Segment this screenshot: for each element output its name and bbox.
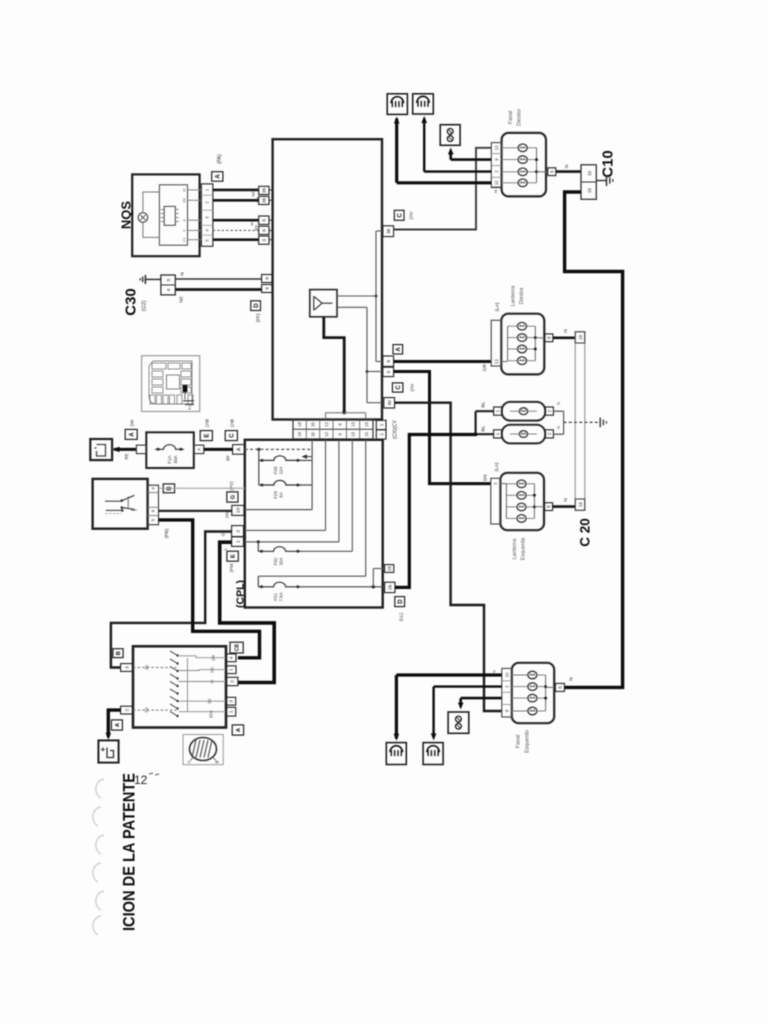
internal net to pins 5 and 40	[337, 306, 367, 308]
wire row3 to low beam icon	[424, 170, 491, 172]
svg-text:9: 9	[265, 287, 270, 290]
stalk switch contacts	[105, 500, 121, 502]
pin 5	[259, 216, 269, 224]
svg-text:Diestro: Diestro	[517, 109, 523, 126]
left headlamp Fanal Esquerdo box	[512, 663, 554, 723]
right tail lamp Lanterna Diestra box	[501, 314, 544, 375]
Lanterna Esquerda pin strip	[491, 478, 501, 524]
wire GR	[394, 360, 492, 363]
svg-text:(FF): (FF)	[256, 313, 262, 322]
battery supply icon	[90, 439, 112, 460]
svg-text:B: B	[215, 760, 220, 763]
wire CPL2 to switch pin3	[111, 532, 232, 668]
pin 25	[385, 565, 394, 573]
pin 10 of CPL	[232, 505, 244, 515]
svg-text:N: N	[556, 402, 561, 405]
svg-text:E04: E04	[209, 710, 214, 718]
svg-text:10: 10	[494, 180, 499, 185]
svg-text:A: A	[129, 432, 135, 437]
right headlamp Fanal Diestro box	[502, 133, 546, 197]
wire switch pin2 to battery icon	[108, 710, 120, 737]
pin 9 b	[262, 285, 272, 293]
svg-text:D: D	[398, 599, 404, 604]
svg-text:N: N	[556, 426, 561, 429]
svg-text:CB: CB	[234, 644, 240, 652]
left tail lamp Lanterna Esquerda box	[500, 473, 544, 530]
svg-text:40: 40	[387, 400, 392, 406]
switch pin 3 left	[121, 664, 133, 672]
svg-text:C: C	[230, 433, 236, 438]
Lanterna Diestra bulbs	[517, 322, 526, 330]
dashed ground line	[564, 421, 600, 423]
svg-text:36: 36	[262, 197, 267, 203]
svg-text:18: 18	[297, 431, 302, 436]
svg-text:12A: 12A	[279, 467, 284, 475]
pin 3	[259, 236, 269, 244]
CPL pin2 internal	[245, 529, 326, 531]
high beam telltale icon left	[386, 743, 406, 765]
svg-text:13: 13	[351, 431, 356, 436]
NQS bulb	[138, 213, 148, 223]
wire to position icon	[449, 151, 452, 160]
svg-text:BL: BL	[481, 425, 487, 431]
Fanal Esquerdo bulbs	[528, 671, 537, 679]
wire pin26 to side markers	[395, 435, 476, 588]
svg-text:9: 9	[182, 229, 186, 231]
svg-text:16: 16	[587, 170, 592, 175]
low beam telltale icon right	[413, 94, 434, 114]
svg-text:18: 18	[297, 421, 302, 426]
svg-text:NZ: NZ	[179, 296, 185, 302]
svg-text:F1: F1	[188, 405, 192, 409]
svg-text:F32: F32	[273, 557, 278, 565]
binder arc marks	[96, 779, 104, 798]
pin 6 right	[383, 356, 394, 366]
wire pin36 to right headlamp	[394, 148, 492, 230]
wire stalk pin4 thin	[159, 487, 245, 489]
fuse F32 output	[301, 550, 352, 552]
fuse F31 feed	[365, 440, 367, 576]
switch pin 4 right	[226, 654, 236, 662]
svg-text:(PM: (PM	[229, 564, 234, 573]
fuse box CPL	[245, 440, 383, 608]
svg-text:ICION DE LA PATENTE: ICION DE LA PATENTE	[120, 773, 139, 931]
CPL pin1 internal	[245, 541, 339, 543]
wire BF to CPL A	[204, 448, 233, 451]
internal light switch symbol	[310, 290, 337, 317]
pin 2 of CPL	[232, 526, 244, 537]
svg-text:F31: F31	[273, 593, 278, 601]
svg-text:Diestra: Diestra	[519, 288, 525, 305]
wire N to C20-19 lower	[553, 505, 576, 508]
svg-text:E: E	[231, 554, 237, 558]
pin 2 marker right	[545, 407, 553, 415]
svg-text:13: 13	[351, 421, 356, 426]
ground at C30	[145, 278, 161, 280]
wire N to C10	[556, 170, 581, 173]
svg-text:(G2): (G2)	[142, 300, 148, 311]
switch pin 2 right	[226, 677, 238, 685]
Fanal Esquerdo pin strip	[502, 668, 512, 717]
svg-text:RE: RE	[124, 453, 129, 459]
svg-text:15: 15	[364, 431, 369, 436]
svg-text:2: 2	[235, 529, 241, 532]
svg-text:(AV: (AV	[410, 383, 416, 391]
pin 26	[385, 582, 395, 592]
pin 6	[259, 226, 269, 234]
svg-text:10: 10	[236, 507, 242, 513]
wire dashed to pin 6	[213, 229, 259, 231]
headlight switch internals	[176, 654, 178, 656]
low beam telltale icon left	[423, 743, 443, 765]
connector C10	[581, 165, 596, 200]
svg-text:15: 15	[587, 188, 592, 193]
pin 1 of CPL	[232, 537, 244, 547]
pin A of CPL	[233, 445, 245, 455]
side marker lamp left	[502, 425, 545, 444]
svg-text:36: 36	[262, 187, 267, 193]
pin 36 b	[259, 196, 269, 204]
stalk pin strip	[148, 485, 159, 525]
svg-text:30A: 30A	[173, 454, 178, 463]
wire to low beam icon	[423, 118, 425, 172]
svg-text:36: 36	[386, 228, 391, 234]
svg-text:BF: BF	[226, 455, 231, 461]
Fanal Diestro pin 5	[548, 168, 556, 176]
ground at C10	[596, 180, 606, 182]
connector label C (AV) upper	[394, 210, 404, 220]
switch knob pictorial	[183, 735, 223, 765]
lighting stalk switch box	[93, 479, 148, 529]
connector C20 strip	[575, 332, 585, 511]
Lanterna Esquerda pin 5	[545, 503, 553, 511]
svg-text:F29: F29	[273, 491, 278, 499]
svg-text:19: 19	[578, 334, 583, 339]
internal net to pins 36 and 6	[337, 295, 376, 297]
pin 36 a	[259, 186, 269, 194]
wire RV to pin 5	[213, 219, 259, 222]
NQS connector strip	[201, 184, 213, 246]
svg-text:G: G	[221, 532, 226, 536]
svg-text:(PV): (PV)	[229, 481, 234, 491]
svg-text:m: m	[210, 679, 215, 683]
svg-text:C 20: C 20	[578, 518, 593, 547]
svg-text:Esquerdo: Esquerdo	[525, 730, 531, 753]
wire RE with arrow	[114, 448, 136, 451]
marker ground wires	[553, 410, 563, 412]
svg-text:2M: 2M	[182, 198, 186, 203]
connector label C (AV) lower	[392, 383, 403, 392]
svg-text:da: da	[144, 665, 149, 670]
svg-text:Fanal: Fanal	[516, 735, 522, 749]
svg-text:5: 5	[262, 218, 267, 221]
svg-text:12: 12	[324, 421, 329, 426]
pin 5 right	[383, 367, 394, 376]
pin stub right A	[194, 445, 204, 454]
side marker lamp right	[502, 402, 545, 421]
connector label B	[163, 484, 174, 493]
Lanterna Esquerda internal buses	[505, 484, 507, 519]
svg-text:10: 10	[504, 672, 509, 677]
fuse F31 output to pins 25 26	[301, 586, 385, 588]
svg-text:C10: C10	[600, 150, 617, 178]
pin stub left	[136, 445, 146, 454]
svg-text:5A: 5A	[279, 492, 284, 497]
svg-text:C: C	[396, 385, 402, 390]
main body computer box	[273, 139, 382, 419]
svg-text:A: A	[396, 346, 402, 351]
connector label D (FF)	[251, 301, 261, 311]
riser to fuse F28	[258, 449, 260, 460]
svg-text:30: 30	[311, 431, 316, 436]
svg-text:6: 6	[262, 229, 267, 232]
svg-text:40: 40	[182, 188, 186, 192]
Lanterna Diestra internal buses	[507, 326, 509, 361]
wire row2 to position icon	[451, 158, 492, 161]
pin 1 CX	[376, 420, 386, 429]
wire stalk pin5 to switch pin4	[159, 520, 260, 658]
switch pin 3 lower right	[226, 697, 236, 705]
connector label A bottom right	[232, 725, 243, 735]
svg-text:(AB: (AB	[205, 419, 211, 427]
svg-text:C: C	[397, 212, 403, 217]
NQS module pin stubs	[188, 189, 202, 191]
svg-text:1: 1	[235, 540, 241, 543]
wire row1 to high beam icon left	[396, 673, 501, 676]
fuse F29	[259, 480, 301, 485]
Fanal Diestro internal bus	[536, 148, 538, 183]
pin 2 marker left	[545, 430, 553, 438]
fuse F32	[258, 547, 301, 552]
wire to pin 3	[213, 238, 259, 241]
svg-text:26: 26	[388, 584, 393, 590]
switch pin 1 lower right	[226, 707, 236, 716]
component NQS box	[132, 174, 199, 256]
svg-text:25: 25	[387, 566, 392, 571]
pin 1 marker right	[494, 407, 502, 415]
svg-text:A: A	[197, 448, 202, 451]
wire row3 to position icon left	[461, 697, 502, 700]
svg-text:(CPL): (CPL)	[235, 580, 247, 608]
svg-text:(LL): (LL)	[399, 612, 405, 621]
svg-text:+: +	[101, 745, 106, 754]
svg-text:30: 30	[311, 421, 316, 426]
svg-text:A: A	[215, 174, 222, 179]
connector label CB top right	[230, 642, 243, 653]
svg-text:Lanterna: Lanterna	[511, 286, 517, 307]
svg-text:(LA): (LA)	[495, 302, 501, 311]
svg-text:N: N	[180, 272, 186, 276]
internal wire to bottom pins	[324, 317, 344, 413]
wire NZ from C30-4	[175, 288, 261, 291]
svg-text:RV: RV	[250, 220, 255, 226]
wire AN stalk to CPL10	[159, 510, 232, 512]
svg-text:N: N	[564, 164, 570, 168]
svg-text:S0: S0	[144, 707, 149, 713]
svg-text:BL: BL	[481, 401, 487, 407]
position lamp icon right	[440, 125, 460, 146]
wires BL to markers	[476, 410, 494, 412]
pin 36 right	[383, 226, 394, 237]
svg-text:12: 12	[324, 431, 329, 436]
svg-text:C30: C30	[123, 288, 140, 316]
svg-text:12: 12	[134, 773, 148, 787]
connector label D (LL)	[395, 597, 405, 607]
svg-text:13: 13	[494, 359, 499, 364]
wire to high beam icon	[395, 119, 398, 183]
riser to fuse F29	[258, 460, 260, 485]
svg-text:AN: AN	[225, 512, 230, 518]
Fanal Diestro bulbs	[518, 144, 527, 152]
svg-text:1: 1	[379, 423, 384, 426]
pin 1 CY	[376, 430, 386, 439]
connector label B left	[113, 649, 123, 658]
svg-text:(PB): (PB)	[164, 528, 170, 538]
svg-text:4: 4	[166, 288, 171, 291]
svg-text:15: 15	[364, 421, 369, 426]
svg-text:A: A	[187, 760, 192, 763]
svg-text:5: 5	[386, 370, 391, 373]
svg-text:C3: C3	[182, 238, 186, 242]
wire pin40 to left headlamp low row	[395, 403, 502, 711]
fuse F28	[259, 456, 301, 461]
Fanal Esquerdo pin 5	[555, 683, 564, 691]
high beam telltale icon right	[387, 94, 407, 115]
Lanterna Esquerda bulbs	[517, 480, 526, 488]
svg-text:(AB: (AB	[230, 419, 236, 427]
bottom pin strip CX CY	[293, 420, 373, 440]
fuse F29 output	[301, 484, 312, 486]
riser to fuse F32	[257, 542, 259, 551]
svg-text:(AV: (AV	[409, 211, 415, 219]
NQS IC U1	[164, 206, 175, 225]
svg-text:N: N	[563, 329, 569, 333]
svg-text:SN: SN	[483, 474, 489, 481]
svg-text:7.5A: 7.5A	[279, 592, 284, 601]
svg-text:3: 3	[262, 238, 267, 241]
Lanterna Diestra pin strip	[491, 320, 501, 366]
svg-text:1: 1	[379, 433, 384, 436]
pin 40	[384, 398, 395, 408]
svg-text:(CX)(CY: (CX)(CY	[393, 419, 399, 439]
svg-text:Esquerda: Esquerda	[521, 538, 527, 560]
svg-text:F28: F28	[273, 466, 278, 474]
svg-text:5: 5	[166, 278, 171, 281]
svg-text:19: 19	[578, 502, 583, 507]
fuse holder F1A box	[146, 432, 194, 468]
svg-text:M: M	[493, 190, 498, 193]
wire SN	[394, 372, 491, 484]
svg-text:G: G	[231, 494, 237, 499]
position lamp icon left	[448, 712, 469, 733]
wire row4 to high beam icon	[397, 181, 492, 184]
wire CPL1 to switch pin2	[220, 542, 275, 682]
switch pin 1 right	[226, 666, 236, 674]
pin 9 a	[262, 275, 272, 283]
svg-text:NZ: NZ	[251, 191, 256, 197]
Fanal Esquerdo internal bus	[545, 675, 547, 711]
Lanterna Diestra pin 5	[545, 334, 553, 342]
svg-text:9: 9	[265, 277, 270, 280]
svg-text:D: D	[254, 303, 260, 308]
wire NZ to pin 36	[213, 189, 259, 192]
connector label E (PM)	[227, 551, 238, 561]
svg-text:(NI: (NI	[130, 420, 136, 426]
headlight switch box	[133, 646, 226, 727]
wire N from C30-5	[175, 278, 261, 280]
Fanal Diestro pin strip	[491, 143, 501, 188]
connector label A bottom left	[111, 720, 122, 730]
wire LN to pin 36	[213, 199, 259, 202]
svg-text:GR: GR	[482, 363, 488, 371]
dashed supply line	[245, 448, 312, 450]
svg-text:(PA): (PA)	[217, 154, 223, 164]
svg-text:6: 6	[386, 359, 391, 362]
fuse F31	[258, 582, 301, 587]
svg-text:tds: tds	[210, 667, 215, 673]
svg-text:B: B	[116, 651, 122, 655]
svg-text:(LA): (LA)	[494, 462, 500, 471]
svg-text:E: E	[205, 434, 211, 438]
svg-text:10A: 10A	[279, 558, 284, 566]
svg-text:N: N	[563, 498, 569, 502]
svg-text:NQS: NQS	[119, 201, 134, 230]
NQS inner module	[159, 185, 187, 245]
svg-text:N: N	[492, 670, 497, 673]
fuse F1A	[155, 445, 184, 450]
svg-text:Lanterna: Lanterna	[512, 539, 518, 560]
svg-text:13: 13	[494, 145, 499, 150]
svg-text:F1A: F1A	[167, 454, 172, 463]
connector C30 box	[161, 275, 175, 295]
fuse F28 output riser	[301, 459, 312, 461]
wire row2 to low beam icon left	[434, 685, 502, 687]
battery plus icon	[98, 740, 118, 762]
fusebox location pictorial	[142, 356, 200, 412]
trunk wire from C10-15	[564, 192, 622, 687]
switch pin 2 left	[121, 706, 133, 714]
pin 1 marker left	[494, 430, 502, 438]
svg-text:S0: S0	[207, 698, 212, 704]
connector label A right	[393, 345, 403, 354]
wire N to C20-19	[553, 336, 575, 339]
svg-text:Fanal: Fanal	[508, 111, 514, 125]
svg-text:N: N	[569, 677, 575, 681]
